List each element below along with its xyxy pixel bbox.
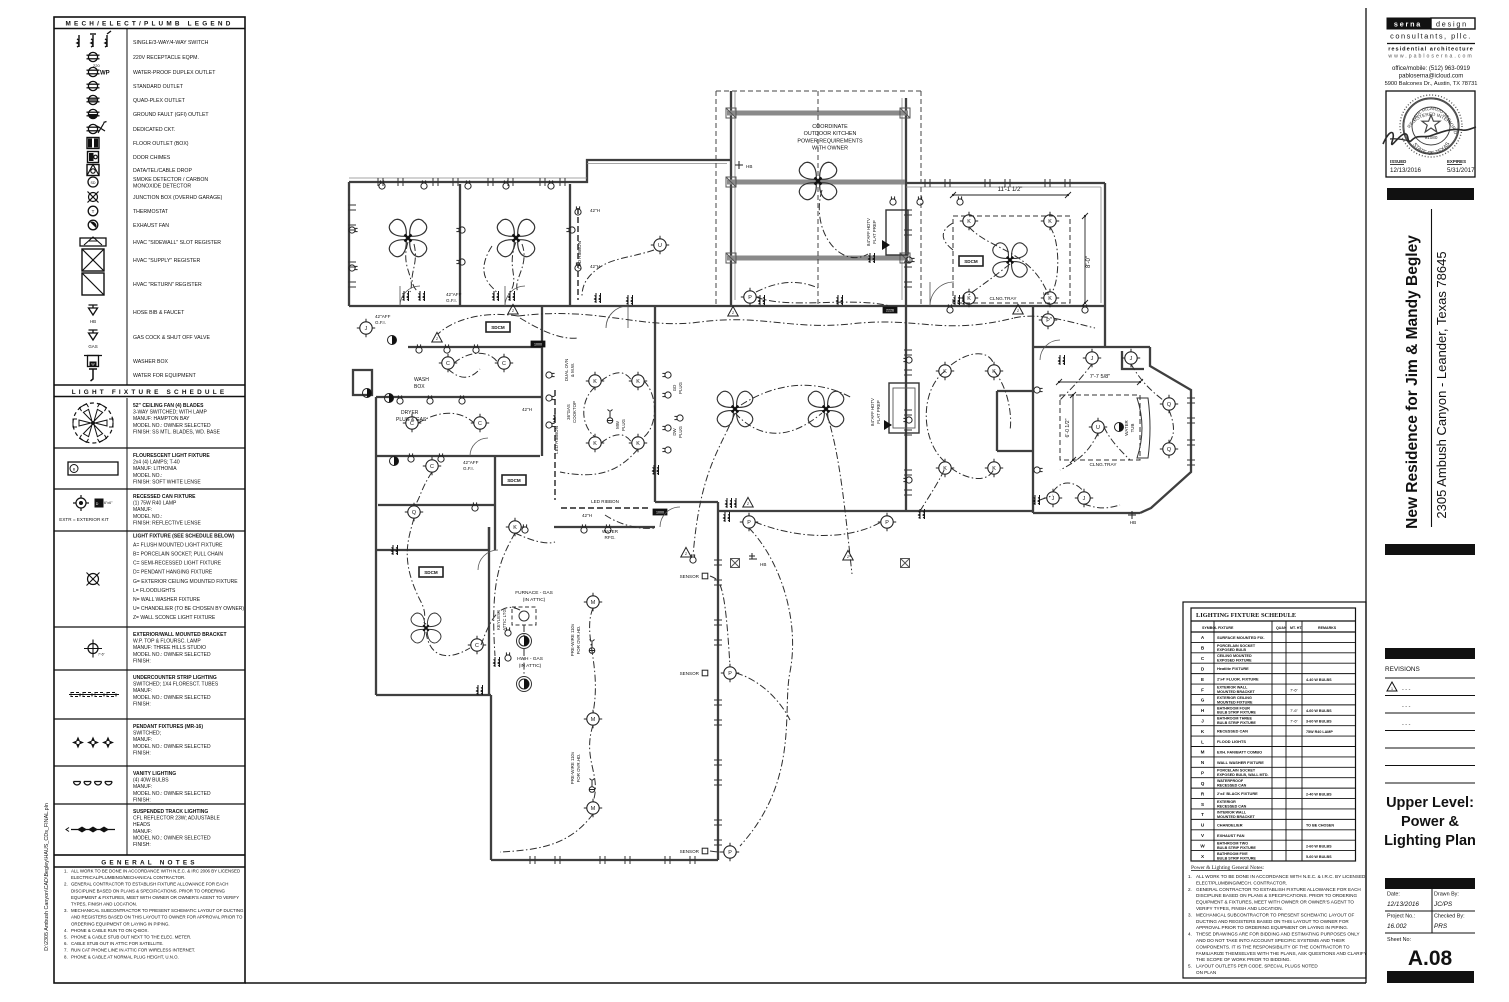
svg-text:K: K	[1048, 296, 1052, 302]
svg-text:SENSOR: SENSOR	[680, 849, 700, 854]
svg-text:LED RIBBON: LED RIBBON	[554, 426, 559, 454]
svg-text:84"AFF HDTV: 84"AFF HDTV	[870, 398, 875, 426]
svg-text:42"AFF: 42"AFF	[446, 292, 462, 297]
svg-text:PORCELAIN SOCKET: PORCELAIN SOCKET	[1217, 644, 1256, 648]
svg-text:3-60 W BULBS: 3-60 W BULBS	[1306, 719, 1332, 723]
svg-text:AND REGISTERS BASED ON THIS LA: AND REGISTERS BASED ON THIS LAYOUT TO OW…	[71, 915, 243, 920]
svg-text:FINISH:: FINISH:	[133, 750, 151, 756]
svg-text:MODEL NO.: OWNER SELECTED: MODEL NO.: OWNER SELECTED	[133, 652, 211, 658]
svg-text:FINISH: SS MTL. BLADES, WD. BA: FINISH: SS MTL. BLADES, WD. BASE	[133, 429, 221, 435]
svg-text:BATHROOM THREE: BATHROOM THREE	[1217, 717, 1253, 721]
svg-text:Checked By:: Checked By:	[1434, 914, 1465, 920]
svg-text:COOKTOP: COOKTOP	[572, 401, 577, 423]
svg-text:4.: 4.	[1188, 932, 1192, 937]
svg-text:MECHANICAL SUBCONTRACTOR TO PR: MECHANICAL SUBCONTRACTOR TO PRESENT SCHE…	[71, 908, 244, 913]
svg-text:FLOOD LIGHTS: FLOOD LIGHTS	[1217, 739, 1246, 744]
svg-text:ALL WORK TO BE DONE IN ACCORDA: ALL WORK TO BE DONE IN ACCORDANCE WITH N…	[1196, 874, 1366, 879]
svg-text:C: C	[502, 361, 506, 367]
svg-text:SENSOR: SENSOR	[680, 574, 700, 579]
svg-text:F: F	[1201, 687, 1204, 692]
svg-text:J: J	[1083, 496, 1086, 502]
svg-text:GENERAL CONTRACTOR TO ESTABLIS: GENERAL CONTRACTOR TO ESTABLISH FIXTURE …	[1196, 887, 1361, 892]
svg-text:P: P	[1046, 318, 1050, 324]
svg-text:12/13/2016: 12/13/2016	[1387, 901, 1419, 908]
svg-text:AND DO NOT TAKE INTO ACCOUNT S: AND DO NOT TAKE INTO ACCOUNT SPECIFIC SY…	[1196, 938, 1345, 943]
svg-text:BATHROOM FOUR: BATHROOM FOUR	[1217, 706, 1250, 710]
svg-text:DW: DW	[672, 427, 677, 435]
svg-text:design: design	[1436, 20, 1468, 29]
svg-text:DUCTING AND REGISTERS BASED ON: DUCTING AND REGISTERS BASED ON THIS LAYO…	[1196, 919, 1349, 924]
svg-text:2226: 2226	[886, 309, 894, 313]
svg-text:RUN CAT PHONE LINE IN ATTIC FO: RUN CAT PHONE LINE IN ATTIC FOR WIRELESS…	[71, 948, 195, 953]
svg-text:FAMILIARIZE THEMSELVES WITH TH: FAMILIARIZE THEMSELVES WITH THE PLANS, A…	[1196, 951, 1367, 956]
svg-text:5.: 5.	[64, 935, 68, 940]
svg-text:LAYOUT OUTLETS PER CODE. SPECI: LAYOUT OUTLETS PER CODE. SPECIAL PLUGS N…	[1196, 964, 1318, 969]
svg-text:E: E	[1201, 677, 1204, 682]
svg-text:K: K	[593, 441, 597, 447]
svg-text:MANUF:: MANUF:	[133, 737, 152, 743]
svg-text:(1) 75W R40 LAMP: (1) 75W R40 LAMP	[133, 501, 177, 507]
svg-text:PRE-WIRE 110v: PRE-WIRE 110v	[570, 623, 575, 656]
svg-text:2.: 2.	[64, 882, 68, 887]
svg-text:THESE DRAWINGS ARE FOR BIDDING: THESE DRAWINGS ARE FOR BIDDING AND ESTIM…	[1196, 932, 1360, 937]
svg-text:Power & Lighting General Notes: Power & Lighting General Notes:	[1191, 865, 1265, 871]
svg-text:MONOXIDE DETECTOR: MONOXIDE DETECTOR	[133, 184, 191, 190]
svg-text:2-40 W BULBS: 2-40 W BULBS	[1306, 792, 1332, 796]
svg-text:WATER-PROOF DUPLEX OUTLET: WATER-PROOF DUPLEX OUTLET	[133, 70, 216, 76]
svg-text:FINISH:: FINISH:	[133, 658, 151, 664]
svg-text:C: C	[410, 421, 414, 427]
svg-text:J: J	[1091, 356, 1094, 362]
svg-text:MANUF: HAMPTON BAY: MANUF: HAMPTON BAY	[133, 416, 190, 422]
svg-text:Drawn By:: Drawn By:	[1434, 892, 1459, 898]
svg-text:WATERPROOF: WATERPROOF	[1217, 779, 1244, 783]
svg-text:MANUF: THREE HILLS STUDIO: MANUF: THREE HILLS STUDIO	[133, 645, 206, 651]
svg-text:FOR OVR.HD.: FOR OVR.HD.	[576, 626, 581, 655]
svg-text:THERMOSTAT: THERMOSTAT	[133, 209, 169, 215]
svg-text:V: V	[1201, 833, 1205, 838]
svg-text:HB: HB	[90, 319, 96, 324]
svg-text:C: C	[478, 421, 482, 427]
svg-text:BULB STRIP FIXTURE: BULB STRIP FIXTURE	[1217, 711, 1256, 715]
svg-text:K: K	[513, 525, 517, 531]
svg-text:CFL REFLECTOR 23W; ADJUSTABLE: CFL REFLECTOR 23W; ADJUSTABLE	[133, 816, 220, 822]
svg-text:TO BE CHOSEN: TO BE CHOSEN	[1306, 824, 1334, 828]
svg-text:HOSE BIB & FAUCET: HOSE BIB & FAUCET	[133, 310, 185, 316]
svg-text:SDCM: SDCM	[964, 259, 978, 264]
svg-text:PRS: PRS	[1434, 923, 1448, 930]
svg-text:2'x4' FLUOR. FIXTURE: 2'x4' FLUOR. FIXTURE	[1217, 677, 1259, 682]
svg-text:ON PLAN: ON PLAN	[1196, 970, 1216, 975]
svg-text:CHANDELIER: CHANDELIER	[1217, 822, 1243, 827]
svg-text:Z: Z	[512, 309, 514, 313]
svg-text:T: T	[92, 209, 95, 214]
svg-text:WP: WP	[100, 71, 110, 77]
svg-text:1.: 1.	[1188, 874, 1192, 879]
svg-text:INTERIOR WALL: INTERIOR WALL	[1217, 810, 1247, 814]
svg-text:1.: 1.	[64, 869, 68, 874]
svg-text:office/mobile: (512) 963-0919: office/mobile: (512) 963-0919	[1392, 66, 1471, 72]
svg-text:SWITCHED; 1X4 FLORESCT. TUBES: SWITCHED; 1X4 FLORESCT. TUBES	[133, 682, 219, 688]
svg-text:42"H: 42"H	[582, 513, 592, 518]
svg-text:EXPIRES: EXPIRES	[1447, 159, 1466, 164]
svg-text:FLAT PREP: FLAT PREP	[872, 220, 877, 244]
svg-text:WALL WASHER FIXTURE: WALL WASHER FIXTURE	[1217, 760, 1264, 765]
svg-text:EXHAUST FAN: EXHAUST FAN	[1217, 833, 1245, 838]
svg-text:LIGHT FIXTURE SCHEDULE: LIGHT FIXTURE SCHEDULE	[72, 389, 228, 396]
svg-text:4.: 4.	[64, 928, 68, 933]
svg-text:PORCELAIN SOCKET: PORCELAIN SOCKET	[1217, 769, 1256, 773]
svg-text:P: P	[748, 295, 752, 301]
svg-text:CABLE STUB OUT IN ATTIC FOR SA: CABLE STUB OUT IN ATTIC FOR SATELLITE.	[71, 941, 163, 946]
svg-text:MODEL NO.: OWNER SELECTED: MODEL NO.: OWNER SELECTED	[133, 423, 211, 429]
svg-text:MANUF:: MANUF:	[133, 829, 152, 835]
svg-text:G.F.I.: G.F.I.	[463, 466, 474, 471]
svg-text:Z: Z	[732, 311, 734, 315]
svg-text:HWH - GAS: HWH - GAS	[517, 656, 543, 662]
svg-text:D:\2305 Ambush Canyon\CAD\Begl: D:\2305 Ambush Canyon\CAD\Begley\HAUS_CD…	[44, 803, 50, 951]
svg-text:ORDERING EQUIPMENT OR LAYING I: ORDERING EQUIPMENT OR LAYING IN PIPING.	[71, 921, 170, 926]
svg-text:U= CHANDELIER (TO BE CHOSEN B: U= CHANDELIER (TO BE CHOSEN BY OWNER)	[133, 606, 244, 612]
svg-text:GROUND FAULT (GFI) OUTLET: GROUND FAULT (GFI) OUTLET	[133, 112, 209, 118]
svg-text:- - -: - - -	[1402, 687, 1411, 693]
svg-text:EQUIPMENT & FIXTURES, MEET WIT: EQUIPMENT & FIXTURES, MEET WITH OWNER OR…	[1196, 900, 1354, 905]
svg-text:TUB: TUB	[1130, 424, 1135, 433]
svg-text:C= SEMI-RECESSED LIGHT FIXTUR: C= SEMI-RECESSED LIGHT FIXTURE	[133, 561, 222, 567]
svg-text:MANUF:: MANUF:	[133, 507, 152, 513]
svg-text:B: B	[73, 467, 76, 471]
svg-text:G= EXTERIOR CEILING MOUNTED F: G= EXTERIOR CEILING MOUNTED FIXTURE	[133, 579, 238, 585]
svg-text:M: M	[1201, 750, 1205, 755]
svg-text:WASH: WASH	[414, 377, 429, 383]
svg-text:FINISH: SOFT WHITE LENSE: FINISH: SOFT WHITE LENSE	[133, 479, 201, 485]
svg-text:serna: serna	[1394, 20, 1422, 29]
svg-text:D= PENDANT HANGING FIXTURE: D= PENDANT HANGING FIXTURE	[133, 570, 213, 576]
svg-text:A.08: A.08	[1408, 947, 1453, 970]
svg-text:FINISH:: FINISH:	[133, 701, 151, 707]
svg-text:FIXTURE: FIXTURE	[1218, 626, 1234, 630]
svg-text:6"x6": 6"x6"	[104, 501, 113, 505]
svg-text:B= PORCELAIN SOCKET; PULL CHA: B= PORCELAIN SOCKET; PULL CHAIN	[133, 552, 223, 558]
svg-text:FLAT PREP: FLAT PREP	[876, 400, 881, 424]
svg-text:ISSUED: ISSUED	[1390, 159, 1406, 164]
svg-text:LIGHTING FIXTURE SCHEDULE: LIGHTING FIXTURE SCHEDULE	[1196, 612, 1296, 619]
svg-text:1000: 1000	[656, 511, 664, 515]
svg-text:BATHROOM FIVE: BATHROOM FIVE	[1217, 852, 1248, 856]
svg-text:GAS COCK & SHUT OFF VALVE: GAS COCK & SHUT OFF VALVE	[133, 335, 211, 341]
svg-text:T: T	[1201, 812, 1204, 817]
svg-text:PLUG: PLUG	[621, 418, 626, 431]
svg-text:HVAC "SUPPLY" REGISTER: HVAC "SUPPLY" REGISTER	[133, 258, 200, 264]
svg-text:12/13/2016: 12/13/2016	[1390, 167, 1422, 174]
svg-text:Project No.:: Project No.:	[1387, 914, 1415, 920]
svg-text:C: C	[475, 643, 479, 649]
svg-text:M: M	[591, 600, 596, 606]
svg-text:PAUL RICARDO SERNA: PAUL RICARDO SERNA	[0, 0, 1453, 125]
svg-text:HB: HB	[760, 562, 766, 567]
svg-text:EXPOSED BULB: EXPOSED BULB	[1217, 648, 1246, 652]
svg-text:Q: Q	[1167, 447, 1171, 453]
svg-text:R: R	[1201, 791, 1205, 796]
svg-text:HEADS: HEADS	[133, 822, 151, 828]
svg-text:A: A	[1201, 635, 1205, 640]
svg-text:CEILING MOUNTED: CEILING MOUNTED	[1217, 654, 1252, 658]
svg-text:Heatlite FIXTURE: Heatlite FIXTURE	[1217, 666, 1249, 671]
svg-text:SD: SD	[91, 181, 96, 185]
svg-text:EXTERIOR CEILING: EXTERIOR CEILING	[1217, 696, 1252, 700]
svg-text:C: C	[430, 464, 434, 470]
svg-text:HB: HB	[746, 164, 752, 169]
svg-text:3-WAY SWITCHED; WITH LAMP: 3-WAY SWITCHED; WITH LAMP	[133, 410, 207, 416]
svg-text:L: L	[1201, 739, 1204, 744]
svg-text:New Residence for Jim & Mandy: New Residence for Jim & Mandy Begley	[1404, 235, 1421, 529]
svg-text:WATER: WATER	[1124, 420, 1129, 435]
svg-text:GD: GD	[672, 385, 677, 392]
svg-text:S: S	[1201, 802, 1204, 807]
svg-text:FINISH:: FINISH:	[133, 842, 151, 848]
svg-text:DRYER: DRYER	[401, 410, 419, 416]
svg-text:P: P	[728, 671, 732, 677]
svg-text:JUNCTION BOX (OVERHD GARAGE): JUNCTION BOX (OVERHD GARAGE)	[133, 195, 223, 201]
svg-text:5.: 5.	[1188, 964, 1192, 969]
svg-text:7.: 7.	[64, 948, 68, 953]
svg-text:K: K	[1048, 219, 1052, 225]
svg-text:JC/PS: JC/PS	[1433, 901, 1453, 908]
svg-text:4-40 W BULBS: 4-40 W BULBS	[1306, 678, 1332, 682]
svg-text:DATA/TEL/CABLE DROP: DATA/TEL/CABLE DROP	[133, 168, 192, 174]
svg-text:75W R40 LAMP: 75W R40 LAMP	[1306, 730, 1333, 734]
svg-text:LIGHT FIXTURE (SEE SCHEDULE BE: LIGHT FIXTURE (SEE SCHEDULE BELOW)	[133, 534, 235, 540]
svg-text:42"AFF: 42"AFF	[375, 314, 391, 319]
svg-text:52" CEILING FAN (4) BLADES: 52" CEILING FAN (4) BLADES	[133, 403, 204, 409]
svg-text:SINGLE/3-WAY/4-WAY SWITCH: SINGLE/3-WAY/4-WAY SWITCH	[133, 40, 209, 46]
svg-text:Z= WALL SCONCE LIGHT FIXTURE: Z= WALL SCONCE LIGHT FIXTURE	[133, 615, 216, 621]
svg-text:MW: MW	[615, 420, 620, 429]
svg-text:16.002: 16.002	[1387, 923, 1407, 930]
svg-text:EXTERIOR/WALL MOUNTED BRACKET: EXTERIOR/WALL MOUNTED BRACKET	[133, 632, 227, 638]
svg-text:MODEL NO.: OWNER SELECTED: MODEL NO.: OWNER SELECTED	[133, 695, 211, 701]
svg-text:FURNACE - GAS: FURNACE - GAS	[515, 590, 553, 596]
svg-text:8'-0": 8'-0"	[1086, 256, 1092, 268]
svg-text:PHONE & CABLE RUN TO ON Q-BOX.: PHONE & CABLE RUN TO ON Q-BOX.	[71, 928, 149, 933]
svg-text:MANUF:: MANUF:	[133, 784, 152, 790]
svg-text:(IN ATTIC): (IN ATTIC)	[519, 663, 542, 669]
svg-text:H: H	[1201, 708, 1205, 713]
svg-text:Date:: Date:	[1387, 892, 1400, 898]
svg-text:HVAC "RETURN" REGISTER: HVAC "RETURN" REGISTER	[133, 282, 202, 288]
svg-text:EQUIPMENT & FIXTURES, MEET WIT: EQUIPMENT & FIXTURES, MEET WITH OWNER OR…	[71, 895, 239, 900]
svg-text:POWER REQUIREMENTS: POWER REQUIREMENTS	[797, 138, 863, 144]
svg-text:7'-7 5/8": 7'-7 5/8"	[1090, 374, 1110, 380]
svg-text:X: X	[1201, 854, 1205, 859]
svg-text:5900 Balcones Dr., Austin, TX: 5900 Balcones Dr., Austin, TX 78731	[1385, 81, 1478, 87]
svg-text:C: C	[446, 361, 450, 367]
svg-text:3.: 3.	[64, 908, 68, 913]
svg-text:DEDICATED CKT.: DEDICATED CKT.	[133, 127, 175, 133]
svg-text:J: J	[1130, 356, 1133, 362]
svg-text:WITH OWNER: WITH OWNER	[812, 146, 848, 152]
svg-text:BULB STRIP FIXTURE: BULB STRIP FIXTURE	[1217, 721, 1256, 725]
svg-text:QUAN: QUAN	[1276, 626, 1287, 630]
svg-text:BULB STRIP FIXTURE: BULB STRIP FIXTURE	[1217, 856, 1256, 860]
svg-text:REMARKS: REMARKS	[1318, 626, 1337, 630]
svg-text:Lighting Plan: Lighting Plan	[1384, 833, 1476, 849]
svg-text:EXTERIOR: EXTERIOR	[1217, 800, 1236, 804]
svg-text:B: B	[1201, 646, 1205, 651]
svg-text:Q: Q	[1167, 402, 1171, 408]
svg-text:RECESSED CAN: RECESSED CAN	[1217, 804, 1247, 808]
svg-text:EXPOSED FIXTURE: EXPOSED FIXTURE	[1217, 659, 1252, 663]
svg-text:D: D	[1201, 666, 1205, 671]
svg-text:2x4 (4) LAMPS; T-40: 2x4 (4) LAMPS; T-40	[133, 460, 180, 466]
svg-text:BATHROOM TWO: BATHROOM TWO	[1217, 842, 1248, 846]
svg-text:1: 1	[1391, 687, 1393, 691]
svg-text:J: J	[1052, 496, 1055, 502]
svg-text:K: K	[636, 379, 640, 385]
svg-text:SWITCHED;: SWITCHED;	[133, 731, 161, 737]
svg-text:OUTDOOR KITCHEN: OUTDOOR KITCHEN	[804, 131, 857, 137]
svg-text:MODEL NO.:: MODEL NO.:	[133, 514, 162, 520]
svg-text:6.: 6.	[64, 941, 68, 946]
svg-text:& M.W.: & M.W.	[570, 363, 575, 377]
svg-text:G.F.I.: G.F.I.	[375, 320, 386, 325]
svg-text:ELECTRICAL/PLUMBING/MECHANICAL: ELECTRICAL/PLUMBING/MECHANICAL CONTRACTO…	[71, 875, 185, 880]
svg-text:MECH/ELECT/PLUMB LEGEND: MECH/ELECT/PLUMB LEGEND	[65, 21, 233, 28]
svg-text:U: U	[1201, 823, 1205, 828]
svg-text:STANDARD OUTLET: STANDARD OUTLET	[133, 84, 184, 90]
svg-text:7'-6": 7'-6"	[1290, 708, 1298, 713]
svg-text:DOOR CHIMES: DOOR CHIMES	[133, 155, 171, 161]
svg-text:7'-6": 7'-6"	[98, 653, 106, 657]
svg-text:BOX: BOX	[414, 384, 425, 390]
svg-text:Z: Z	[1017, 309, 1019, 313]
svg-text:K: K	[967, 296, 971, 302]
svg-text:FLOOR OUTLET (BOX): FLOOR OUTLET (BOX)	[133, 141, 189, 147]
svg-text:U: U	[1096, 425, 1100, 431]
svg-text:FOR OVR.HD.: FOR OVR.HD.	[576, 754, 581, 783]
svg-text:APPROVAL PRIOR TO ORDERING EQU: APPROVAL PRIOR TO ORDERING EQUIPMENT OR …	[1196, 925, 1348, 930]
svg-text:GENERAL NOTES: GENERAL NOTES	[101, 860, 198, 867]
svg-text:Upper Level:: Upper Level:	[1386, 795, 1474, 811]
svg-text:L= FLOODLIGHTS: L= FLOODLIGHTS	[133, 588, 176, 594]
svg-text:2305 Ambush Canyon - Leander: 2305 Ambush Canyon - Leander, Texas 7864…	[1434, 251, 1449, 518]
svg-text:SDCM: SDCM	[507, 478, 521, 483]
svg-text:P: P	[728, 850, 732, 856]
svg-text:C: C	[1201, 656, 1205, 661]
svg-text:Q: Q	[412, 510, 416, 516]
svg-text:EXTR = EXTERIOR KIT: EXTR = EXTERIOR KIT	[59, 517, 109, 522]
svg-text:GENERAL CONTRACTOR TO ESTABLIS: GENERAL CONTRACTOR TO ESTABLISH FIXTURE …	[71, 882, 228, 887]
svg-text:SURFACE MOUNTED FIX.: SURFACE MOUNTED FIX.	[1217, 635, 1265, 640]
svg-text:PLUG: PLUG	[678, 425, 683, 438]
svg-text:EXTERIOR WALL: EXTERIOR WALL	[1217, 685, 1248, 689]
svg-text:SMOKE DETECTOR / CARBON: SMOKE DETECTOR / CARBON	[133, 177, 208, 183]
svg-text:MT. HT.: MT. HT.	[1290, 626, 1302, 630]
svg-text:MANUF:: MANUF:	[133, 688, 152, 694]
svg-text:RFG.: RFG.	[605, 535, 616, 540]
svg-text:84"AFF HDTV: 84"AFF HDTV	[866, 218, 871, 246]
svg-text:Sheet No:: Sheet No:	[1387, 937, 1411, 943]
svg-text:EXHAUST FAN: EXHAUST FAN	[133, 223, 169, 229]
svg-text:DUAL OVN: DUAL OVN	[564, 359, 569, 381]
svg-text:Z: Z	[685, 552, 687, 556]
svg-text:P: P	[747, 520, 751, 526]
svg-text:LED RIBBON: LED RIBBON	[591, 499, 619, 504]
svg-text:TYPES, FINISH AND LOCATION.: TYPES, FINISH AND LOCATION.	[71, 902, 137, 907]
svg-text:U: U	[658, 243, 662, 249]
svg-text:A= FLUSH MOUNTED LIGHT FIXTUR: A= FLUSH MOUNTED LIGHT FIXTURE	[133, 543, 223, 549]
svg-text:CLNG.TRAY: CLNG.TRAY	[989, 296, 1017, 302]
svg-text:- - -: - - -	[1402, 722, 1411, 728]
svg-text:MECHANICAL SUBCONTRACTOR TO PR: MECHANICAL SUBCONTRACTOR TO PRESENT SCHE…	[1196, 912, 1354, 917]
svg-text:42"AFF: 42"AFF	[463, 460, 479, 465]
svg-text:DISCIPLINE BASED ON PLANS & SP: DISCIPLINE BASED ON PLANS & SPECIFICATIO…	[1196, 893, 1357, 898]
svg-text:www.pabloserna.com: www.pabloserna.com	[1388, 54, 1473, 60]
svg-text:D: D	[96, 502, 99, 506]
svg-text:WASHER BOX: WASHER BOX	[133, 359, 169, 365]
svg-text:G.F.I.: G.F.I.	[446, 298, 457, 303]
svg-text:MODEL NO.: OWNER SELECTED: MODEL NO.: OWNER SELECTED	[133, 835, 211, 841]
svg-text:MODEL NO.: OWNER SELECTED: MODEL NO.: OWNER SELECTED	[133, 791, 211, 797]
svg-text:MODEL NO.:: MODEL NO.:	[133, 473, 162, 479]
svg-text:5-60 W BULBS: 5-60 W BULBS	[1306, 855, 1332, 859]
svg-text:MODEL NO.: OWNER SELECTED: MODEL NO.: OWNER SELECTED	[133, 744, 211, 750]
svg-text:Z: Z	[847, 555, 849, 559]
svg-text:pabloserna@icloud.com: pabloserna@icloud.com	[1399, 74, 1463, 80]
svg-text:Power &: Power &	[1401, 814, 1460, 830]
svg-text:K: K	[593, 379, 597, 385]
svg-text:DISCIPLINE BASED ON PLANS & SP: DISCIPLINE BASED ON PLANS & SPECIFICATIO…	[71, 888, 226, 893]
svg-text:N= WALL WASHER FIXTURE: N= WALL WASHER FIXTURE	[133, 597, 201, 603]
svg-text:BULB STRIP FIXTURE: BULB STRIP FIXTURE	[1217, 846, 1256, 850]
svg-text:J: J	[365, 326, 368, 332]
svg-text:RECESSED CAN: RECESSED CAN	[1217, 729, 1248, 734]
svg-text:MOUNTED BRACKET: MOUNTED BRACKET	[1217, 815, 1255, 819]
svg-text:CLNG.TRAY: CLNG.TRAY	[1089, 462, 1117, 468]
svg-text:- - -: - - -	[1402, 704, 1411, 710]
svg-text:HB: HB	[1130, 520, 1136, 525]
svg-text:residential architecture: residential architecture	[1388, 47, 1474, 53]
svg-text:EXPOSED BULB, WALL MTD.: EXPOSED BULB, WALL MTD.	[1217, 773, 1269, 777]
svg-text:SDCM: SDCM	[491, 325, 505, 330]
svg-text:Z: Z	[747, 502, 749, 506]
svg-text:RECESSED CAN: RECESSED CAN	[1217, 784, 1247, 788]
svg-text:7'-6": 7'-6"	[1290, 687, 1298, 692]
svg-text:3.: 3.	[1188, 912, 1192, 917]
svg-text:220V RECEPTACLE EQPM.: 220V RECEPTACLE EQPM.	[133, 55, 199, 61]
svg-text:Z: Z	[436, 337, 438, 341]
svg-text:M: M	[591, 717, 596, 723]
svg-text:PRE-WIRE 110v: PRE-WIRE 110v	[570, 751, 575, 784]
svg-text:2.: 2.	[1188, 887, 1192, 892]
svg-text:G: G	[1201, 698, 1205, 703]
svg-text:7'-6": 7'-6"	[1290, 718, 1298, 723]
svg-text:2-60 W BULBS: 2-60 W BULBS	[1306, 844, 1332, 848]
svg-text:STATE OF TEXAS: STATE OF TEXAS	[1411, 141, 1452, 157]
svg-text:PLUG: PLUG	[678, 381, 683, 394]
svg-text:K: K	[992, 369, 996, 375]
svg-text:consultants, pllc.: consultants, pllc.	[1390, 32, 1472, 41]
svg-text:W.P. TOP & FLOURSC. LAMP: W.P. TOP & FLOURSC. LAMP	[133, 639, 201, 645]
svg-text:VERIFY TYPES, FINISH AND LOCAT: VERIFY TYPES, FINISH AND LOCATION.	[1196, 906, 1283, 911]
svg-text:SENSOR: SENSOR	[680, 671, 700, 676]
svg-text:HVAC "SIDEWALL" SLOT REGISTER: HVAC "SIDEWALL" SLOT REGISTER	[133, 240, 221, 246]
svg-text:REVISIONS: REVISIONS	[1385, 666, 1420, 673]
svg-text:36"GAS: 36"GAS	[566, 404, 571, 420]
svg-text:VANITY LIGHTING: VANITY LIGHTING	[133, 771, 176, 777]
svg-text:UNDERCOUNTER STRIP LIGHTING: UNDERCOUNTER STRIP LIGHTING	[133, 675, 217, 681]
svg-text:PENDANT FIXTURES (MR-16): PENDANT FIXTURES (MR-16)	[133, 724, 203, 730]
